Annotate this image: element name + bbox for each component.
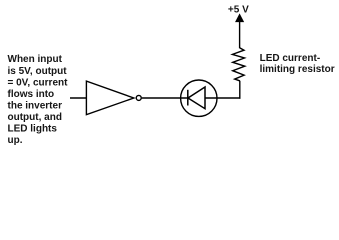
svg-text:up.: up. [8,135,23,146]
svg-text:output, and: output, and [8,112,62,123]
LED D1 cathode bar [187,90,189,106]
node: inverter output bubble [136,95,141,100]
+5V supply arrowhead [236,14,244,22]
LED D1 circle [181,80,217,116]
svg-text:LED lights: LED lights [8,124,58,135]
svg-text:+5 V: +5 V [228,5,249,16]
op-amp U1 inverter triangle [86,81,133,115]
LED D1 diode triangle [188,87,205,109]
wire: vertical riser to resistor [239,81,241,99]
svg-text:LED current-: LED current- [260,53,321,64]
resistor R1 zigzag [232,48,244,81]
wire: bubble to LED cathode [142,97,188,99]
wire: resistor top to +5V arrow [239,21,241,49]
label: LED current-limiting resistor [260,53,335,75]
svg-text:= 0V, current: = 0V, current [8,77,69,88]
svg-text:When input: When input [8,54,63,65]
wire: LED anode to corner [205,97,241,99]
wire: inverter input [70,97,86,99]
svg-text:limiting resistor: limiting resistor [260,64,335,75]
label: left explanation text [8,54,69,146]
svg-text:is 5V, output: is 5V, output [8,66,68,77]
svg-text:flows into: flows into [8,89,55,100]
svg-text:the inverter: the inverter [8,100,63,111]
